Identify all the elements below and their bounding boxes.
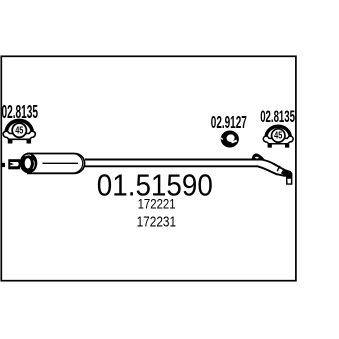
hanger hook on pipe (252, 154, 265, 160)
tailpipe elbow and down-turned tip (281, 170, 293, 185)
inlet flange fork (8, 159, 20, 169)
pipe bottom edge (85, 166, 286, 176)
muffler left end cap ring (20, 153, 38, 174)
svg-text:02.8135: 02.8135 (2, 101, 39, 122)
svg-text:172231: 172231 (137, 215, 177, 231)
rubber mounting icon left (ring bracket with 45) (3, 121, 35, 144)
straight pipe to rear with bend (top edge) (85, 160, 291, 173)
rubber mounting icon right (ring bracket with 45) (263, 126, 293, 147)
muffler body (capsule) (27, 154, 85, 174)
inlet stub square on frame border (2, 163, 5, 167)
svg-text:172221: 172221 (138, 196, 176, 212)
svg-text:02.8135: 02.8135 (260, 108, 295, 126)
svg-text:45: 45 (274, 131, 283, 142)
svg-text:45: 45 (15, 126, 24, 137)
tailpipe joint seam (277, 166, 280, 171)
gasket ring icon (221, 131, 239, 148)
svg-text:02.9127: 02.9127 (211, 112, 247, 132)
